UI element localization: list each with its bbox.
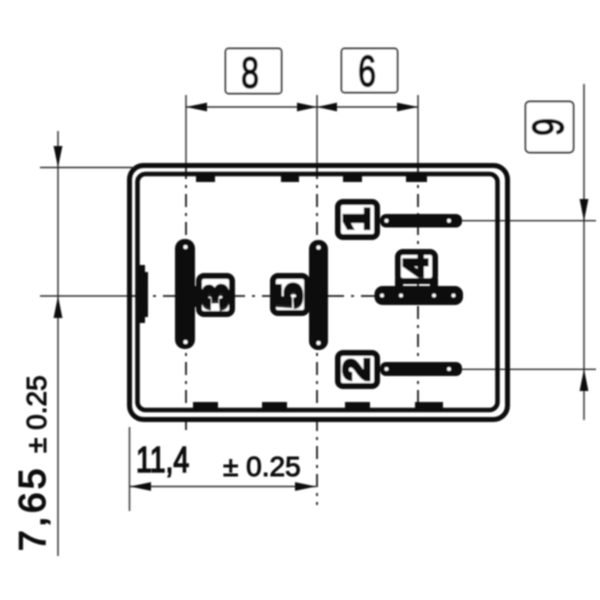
pin 2 blade [380, 362, 462, 376]
top dimension line [186, 106, 418, 108]
right dim arrow top (points down to pin1 axis) [580, 199, 589, 221]
pin 5 label box [273, 276, 307, 313]
top dim arrow left (tip at pin3 axis) [186, 103, 207, 112]
pin 1 blade hole right [447, 219, 451, 223]
inner bottom edge tab 3 [345, 402, 370, 410]
center line pin 5 (vertical) [316, 95, 318, 166]
left dim arrow top (points down to body top) [54, 146, 63, 168]
dimension box 6 [342, 49, 398, 93]
inner bottom edge tab 1 [193, 402, 218, 410]
inner bottom edge tab 4 [415, 402, 443, 410]
svg-text:4: 4 [398, 256, 434, 277]
right dimension line (9) [583, 84, 585, 420]
left dimension line (7.65) [57, 131, 59, 556]
inner top edge tab 1 [196, 174, 215, 182]
pin 2 blade hole right [447, 367, 451, 371]
inner top edge tab 4 [406, 174, 427, 182]
pin 4 blade holes [380, 294, 384, 298]
pin 1 label box [338, 202, 377, 237]
svg-text:± 0.25: ± 0.25 [223, 451, 301, 482]
pin 2 label box [338, 353, 377, 386]
pin 3 blade hole top [184, 245, 188, 249]
dimension box 9 [526, 102, 574, 153]
pin 1 horizontal center line [462, 220, 596, 222]
svg-text:11,4: 11,4 [136, 440, 189, 480]
inner top edge tab 2 [281, 174, 299, 182]
pin 4 label box [398, 252, 435, 281]
svg-text:5: 5 [270, 285, 310, 308]
bottom dimension line (11.4) [130, 486, 316, 488]
center line pins 1-4-2 (vertical) [417, 95, 419, 166]
bottom dim arrow right [295, 482, 316, 491]
relay body outer outline [130, 166, 508, 420]
right dim arrow bottom (points up to pin2 axis) [580, 369, 589, 391]
pin 5 blade hole bottom [317, 341, 321, 345]
main horizontal center line [40, 295, 130, 297]
svg-text:7,65: 7,65 [12, 465, 53, 551]
bottom dim arrow left [130, 482, 151, 491]
svg-text:6: 6 [358, 47, 376, 96]
inner bottom edge tab 2 [262, 402, 287, 410]
pin 2 blade hole left [385, 367, 389, 371]
svg-text:2: 2 [338, 358, 378, 381]
svg-text:8: 8 [241, 48, 259, 97]
pin 4 blade [375, 286, 464, 305]
pin 1 blade hole left [385, 219, 389, 223]
svg-text:± 0.25: ± 0.25 [21, 375, 52, 453]
pin 4 label legs [395, 278, 403, 288]
top dim bowtie arrows at pin5 axis [297, 103, 317, 112]
pin 3 label box [199, 276, 232, 314]
pin 1 blade [380, 214, 462, 228]
svg-text:1: 1 [338, 208, 378, 231]
dimension box 8 [226, 49, 282, 94]
svg-text:9: 9 [524, 118, 573, 136]
pin 5 blade hole top [317, 246, 321, 250]
pin 2 horizontal center line [462, 368, 596, 370]
left wall keying rib [137, 265, 145, 323]
inner top edge tab 3 [343, 174, 362, 182]
pin 3 blade [175, 239, 195, 349]
pin 5 blade [309, 240, 328, 350]
left dim extension line at body top [40, 167, 134, 169]
left dim arrow bottom (points up to center line) [54, 296, 63, 318]
pin 3 label connector [191, 286, 203, 307]
svg-text:3: 3 [197, 287, 237, 310]
bottom dim extension line left [129, 427, 131, 511]
center line pin 3 (vertical) [185, 95, 187, 166]
top dim arrow right (tip at pin1/2/4 axis) [397, 103, 418, 112]
relay body inner outline [138, 174, 498, 410]
pin 3 blade hole bottom [184, 340, 188, 344]
